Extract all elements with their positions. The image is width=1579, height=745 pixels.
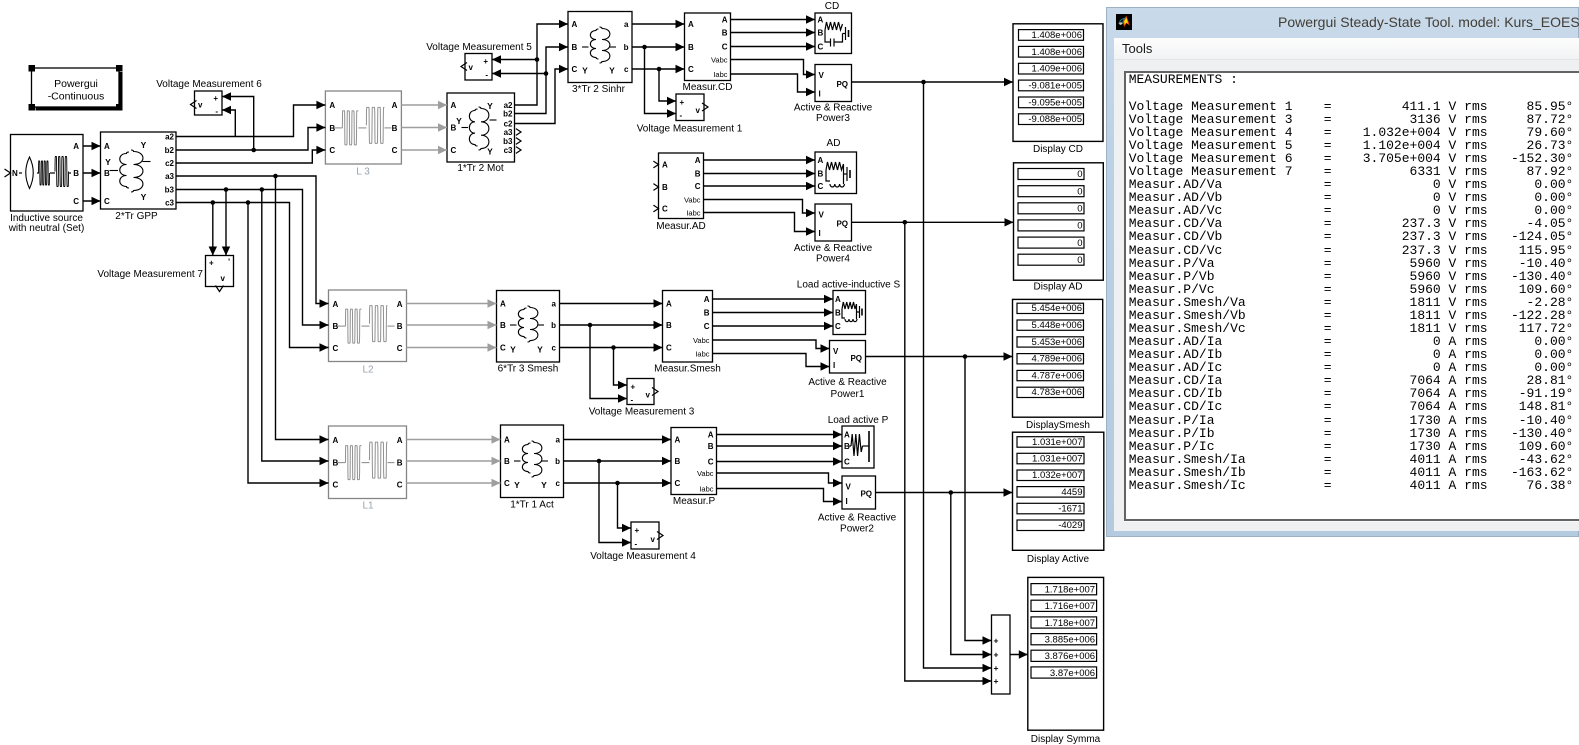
svg-text:Measur.P: Measur.P	[673, 496, 716, 507]
svg-text:Voltage Measurement 6: Voltage Measurement 6	[156, 79, 262, 90]
svg-text:A: A	[688, 20, 694, 29]
svg-text:Active & Reactive: Active & Reactive	[818, 513, 897, 524]
label Active & Reactive Power4	[794, 243, 873, 265]
svg-text:B: B	[392, 124, 398, 133]
svg-text:PQ: PQ	[836, 220, 848, 229]
svg-text:3.876e+006: 3.876e+006	[1045, 651, 1095, 662]
block Active & Reactive Power4	[815, 204, 852, 241]
wire Measur.CD B to CD B	[731, 28, 816, 36]
label 6*Tr 3 Smesh	[498, 364, 559, 375]
svg-text:B: B	[708, 442, 714, 451]
svg-text:B: B	[504, 457, 510, 466]
svg-text:C: C	[818, 182, 824, 191]
wire VM5 minus tap	[492, 73, 546, 75]
svg-text:C: C	[451, 146, 457, 155]
wire Power1 PQ branch to sum	[965, 357, 992, 645]
svg-text:Iabc: Iabc	[695, 349, 709, 358]
arrow into VM5 plus	[492, 55, 501, 63]
svg-text:B: B	[704, 308, 710, 317]
svg-text:Y: Y	[609, 66, 615, 76]
wire Power3 PQ to Display CD	[852, 78, 1014, 86]
svg-text:b: b	[551, 321, 556, 330]
svg-text:B: B	[397, 459, 403, 468]
svg-text:Y: Y	[487, 147, 493, 157]
svg-text:I: I	[819, 90, 821, 99]
svg-text:Vabc: Vabc	[693, 336, 710, 345]
wire Measur.P Iabc to Power2 I	[717, 489, 843, 506]
wire Measur.P C to P C	[717, 457, 843, 465]
svg-text:C: C	[397, 481, 403, 490]
wire GPP b3 to L2 B	[176, 187, 329, 329]
svg-text:Y: Y	[537, 345, 543, 355]
wire Measur.P Vabc to Power2 V	[717, 473, 843, 487]
svg-text:Powergui: Powergui	[54, 78, 98, 90]
block Voltage Measurement 7	[206, 256, 234, 292]
block Active & Reactive Power1	[830, 341, 866, 374]
svg-text:-Continuous: -Continuous	[48, 91, 105, 103]
wire Act c to Measur.P C	[564, 479, 672, 487]
svg-text:C: C	[333, 481, 339, 490]
svg-text:B: B	[695, 169, 701, 178]
svg-text:A: A	[572, 20, 578, 29]
wire Measur.P A to P A	[717, 430, 843, 438]
svg-text:Active & Reactive: Active & Reactive	[794, 103, 873, 114]
window client area	[1114, 38, 1579, 531]
svg-text:L1: L1	[362, 501, 374, 512]
measurement block Measur.P	[671, 428, 717, 495]
source block Inductive source with neutral (Set)	[5, 135, 84, 212]
wire Mot a2 to Sinhr A	[515, 20, 569, 105]
window icon	[1116, 14, 1132, 30]
svg-text:I: I	[846, 497, 848, 506]
wire L3 B to Mot B	[401, 123, 447, 131]
svg-text:a: a	[624, 20, 629, 29]
svg-text:v: v	[646, 391, 651, 400]
block Active & Reactive Power2	[842, 476, 876, 509]
svg-text:V: V	[846, 483, 852, 492]
svg-text:3.87e+006: 3.87e+006	[1050, 668, 1095, 679]
label L 3	[356, 167, 370, 178]
block Powergui -Continuous	[29, 65, 123, 111]
label Display Active	[1027, 554, 1090, 565]
svg-text:Y: Y	[510, 345, 516, 355]
svg-text:Display Active: Display Active	[1027, 554, 1090, 565]
wire L1 A to Act A	[407, 435, 501, 443]
svg-text:Power1: Power1	[831, 389, 865, 400]
wire GPP b3 branch to L1 B	[262, 190, 329, 466]
svg-text:+: +	[631, 383, 636, 392]
svg-text:-4029: -4029	[1058, 520, 1082, 531]
block L2	[329, 290, 407, 362]
svg-text:v: v	[696, 106, 701, 115]
svg-text:Measur.AD: Measur.AD	[656, 221, 705, 232]
svg-text:B: B	[818, 170, 824, 179]
wire Measur.AD Iabc to Power4 I	[704, 213, 816, 236]
svg-text:CD: CD	[825, 1, 839, 12]
Powergui Steady-State Tool window	[1106, 7, 1579, 537]
svg-text:1*Tr 2 Mot: 1*Tr 2 Mot	[457, 163, 504, 174]
svg-text:1.408e+006: 1.408e+006	[1032, 47, 1082, 58]
label Measur.P	[673, 496, 716, 507]
svg-text:1.032e+007: 1.032e+007	[1032, 470, 1082, 481]
svg-text:Voltage Measurement 1: Voltage Measurement 1	[637, 124, 743, 135]
load block AD	[815, 152, 857, 194]
svg-text:C: C	[688, 65, 694, 74]
wire Measur.AD B to AD B	[704, 169, 816, 177]
svg-text:-9.095e+005: -9.095e+005	[1028, 97, 1082, 108]
wire VM6 plus tap from b2	[222, 97, 254, 151]
wire Measur.AD C to AD C	[704, 182, 816, 190]
svg-text:3*Tr 2 Sinhr: 3*Tr 2 Sinhr	[572, 84, 626, 95]
svg-text:0: 0	[1077, 221, 1082, 232]
svg-text:B: B	[675, 457, 681, 466]
svg-text:b2: b2	[503, 109, 513, 118]
svg-text:5.453e+006: 5.453e+006	[1032, 337, 1082, 348]
svg-text:A: A	[451, 101, 457, 110]
display block DisplaySmesh	[1013, 299, 1103, 417]
label Active & Reactive Power2	[818, 513, 897, 535]
svg-text:C: C	[708, 457, 714, 466]
svg-text:v: v	[651, 535, 656, 544]
svg-text:0: 0	[1077, 186, 1082, 197]
svg-text:C: C	[666, 344, 672, 353]
wire GPP c2 to L3 C	[176, 146, 325, 163]
block L1	[329, 426, 407, 499]
wire Power1 PQ to DisplaySmesh	[866, 352, 1013, 360]
svg-text:b2: b2	[165, 146, 175, 155]
svg-text:C: C	[333, 344, 339, 353]
wire c tap to VM3 plus	[614, 348, 628, 390]
label Voltage Measurement 6	[156, 79, 262, 90]
load block CD	[815, 13, 852, 54]
wire Measur.Smesh B to S B	[713, 308, 834, 316]
svg-text:A: A	[844, 431, 850, 440]
wire GPP c3 branch to VM7	[209, 203, 217, 256]
transformer block 2*Tr GPP	[101, 132, 177, 209]
wire Power2 PQ branch to sum	[951, 493, 992, 659]
svg-text:A: A	[333, 300, 339, 309]
svg-text:-: -	[635, 540, 638, 549]
svg-text:C: C	[704, 322, 710, 331]
label DisplaySmesh	[1026, 420, 1090, 431]
svg-text:C: C	[500, 344, 506, 353]
svg-text:Measur.Smesh: Measur.Smesh	[654, 364, 721, 375]
wire Measur.CD C to CD C	[731, 42, 816, 50]
label Load active P	[828, 415, 889, 426]
svg-text:B: B	[104, 169, 110, 178]
label AD	[827, 138, 841, 149]
svg-text:+: +	[994, 676, 999, 686]
svg-text:B: B	[662, 183, 668, 192]
svg-text:1.409e+006: 1.409e+006	[1032, 64, 1082, 75]
measurements listbox	[1124, 71, 1579, 521]
label Active & Reactive Power3	[794, 103, 873, 125]
svg-text:a: a	[552, 300, 557, 309]
svg-text:DisplaySmesh: DisplaySmesh	[1026, 420, 1090, 431]
svg-text:I: I	[833, 361, 835, 370]
svg-text:A: A	[397, 436, 403, 445]
svg-text:Y: Y	[514, 480, 520, 490]
wire VM5 plus tap	[492, 59, 537, 61]
display block Display CD	[1013, 24, 1103, 142]
transformer block 1*Tr 1 Act	[501, 425, 564, 498]
label Voltage Measurement 7	[97, 269, 203, 280]
svg-text:a: a	[556, 436, 561, 445]
wire source A to GPP A	[83, 142, 101, 150]
svg-text:2*Tr GPP: 2*Tr GPP	[115, 211, 158, 222]
svg-text:1.408e+006: 1.408e+006	[1032, 30, 1082, 41]
svg-text:+: +	[209, 259, 214, 268]
label Measur.CD	[682, 82, 732, 93]
svg-text:-: -	[680, 111, 683, 120]
svg-text:Y: Y	[541, 480, 547, 490]
wire Sinhr b to Measur.CD B	[632, 43, 685, 51]
label L2	[362, 365, 374, 376]
svg-text:c: c	[556, 479, 561, 488]
svg-text:Voltage Measurement 3: Voltage Measurement 3	[589, 407, 695, 418]
svg-text:L 3: L 3	[356, 167, 370, 178]
svg-text:Y: Y	[456, 116, 462, 126]
label L1	[362, 501, 374, 512]
measurement block Measur.AD	[653, 153, 703, 219]
svg-text:C: C	[695, 182, 701, 191]
svg-text:Y: Y	[141, 140, 147, 150]
svg-text:PQ: PQ	[850, 354, 862, 363]
wire Measur.CD A to CD A	[731, 15, 816, 23]
svg-text:V: V	[833, 347, 839, 356]
svg-text:B: B	[666, 321, 672, 330]
block L 3	[325, 91, 401, 164]
wire GPP b2 to L3 B	[176, 123, 325, 152]
svg-text:Power4: Power4	[816, 254, 850, 265]
block Active & Reactive Power3	[815, 65, 852, 102]
wire Measur.Smesh Vabc to Power1 V	[713, 340, 830, 353]
label Measur.Smesh	[654, 364, 721, 375]
svg-text:B: B	[572, 43, 578, 52]
svg-text:C: C	[572, 65, 578, 74]
wire GPP c3 branch to L1 C	[248, 203, 329, 488]
svg-text:A: A	[104, 142, 110, 151]
svg-text:c3: c3	[165, 198, 174, 207]
block Voltage Measurement 1	[676, 94, 708, 121]
svg-text:6*Tr 3 Smesh: 6*Tr 3 Smesh	[498, 364, 559, 375]
wire Measur.Smesh Iabc to Power1 I	[713, 354, 830, 371]
svg-text:Vabc: Vabc	[684, 195, 701, 204]
svg-text:+: +	[994, 663, 999, 673]
block Voltage Measurement 3	[627, 379, 658, 405]
svg-text:1.031e+007: 1.031e+007	[1032, 454, 1082, 465]
svg-text:a3: a3	[165, 172, 174, 181]
block Voltage Measurement 4	[631, 522, 663, 549]
label Measur.AD	[656, 221, 705, 232]
svg-text:A: A	[835, 295, 841, 304]
svg-text:Load active-inductive S: Load active-inductive S	[797, 280, 901, 291]
svg-text:c: c	[552, 344, 557, 353]
svg-text:b: b	[555, 457, 560, 466]
svg-text:Iabc: Iabc	[713, 70, 727, 79]
arrow into VM6 plus	[222, 92, 231, 100]
svg-text:A: A	[695, 156, 701, 165]
svg-text:-9.081e+005: -9.081e+005	[1028, 81, 1082, 92]
wire b tap to VM4 minus	[599, 461, 631, 547]
svg-text:C: C	[104, 197, 110, 206]
label Display AD	[1034, 282, 1083, 293]
svg-text:B: B	[500, 321, 506, 330]
wire Power4 PQ branch to sum	[905, 222, 992, 685]
svg-text:Display AD: Display AD	[1034, 282, 1083, 293]
label Load active-inductive S	[797, 280, 901, 291]
svg-text:AD: AD	[827, 138, 841, 149]
svg-text:c: c	[624, 65, 629, 74]
wire VM6 minus tap from a2	[222, 110, 235, 137]
arrow into VM5 minus	[492, 69, 501, 77]
svg-text:B: B	[73, 169, 79, 178]
label Display CD	[1033, 144, 1083, 155]
label 1*Tr 2 Mot	[457, 163, 504, 174]
svg-text:+: +	[483, 57, 488, 66]
svg-text:B: B	[835, 309, 841, 318]
svg-text:b3: b3	[165, 185, 175, 194]
wire GPP a3 to L2 A	[176, 174, 329, 308]
svg-text:v: v	[198, 101, 203, 110]
label Display Symma	[1031, 734, 1101, 745]
svg-text:4459: 4459	[1061, 487, 1082, 498]
block Voltage Measurement 6	[191, 91, 223, 116]
svg-text:A: A	[818, 16, 824, 25]
svg-text:1.716e+007: 1.716e+007	[1045, 601, 1095, 612]
wire L1 C to Act C	[407, 479, 501, 487]
menu bar Tools	[1114, 38, 1579, 60]
svg-text:C: C	[397, 344, 403, 353]
svg-text:A: A	[333, 436, 339, 445]
label Voltage Measurement 5	[426, 42, 532, 53]
svg-text:C: C	[835, 322, 841, 331]
svg-text:1.718e+007: 1.718e+007	[1045, 618, 1095, 629]
svg-text:Voltage Measurement 5: Voltage Measurement 5	[426, 42, 532, 53]
svg-text:a2: a2	[165, 132, 174, 141]
wire Smesh b to Measur.Smesh B	[560, 321, 663, 329]
svg-text:Iabc: Iabc	[686, 208, 700, 217]
svg-text:Voltage Measurement 7: Voltage Measurement 7	[97, 269, 203, 280]
svg-text:PQ: PQ	[860, 490, 872, 499]
svg-text:+: +	[994, 650, 999, 660]
svg-text:Y: Y	[141, 192, 147, 202]
wire L1 B to Act B	[407, 457, 501, 465]
svg-text:Display CD: Display CD	[1033, 144, 1083, 155]
svg-text:Y: Y	[105, 157, 111, 167]
window title	[1278, 14, 1579, 30]
wire c tap to VM1 plus	[659, 69, 676, 105]
wire Measur.Smesh A to S A	[713, 295, 834, 303]
svg-text:B: B	[397, 322, 403, 331]
svg-text:Active & Reactive: Active & Reactive	[794, 243, 873, 254]
label Voltage Measurement 1	[637, 124, 743, 135]
svg-text:Load active P: Load active P	[828, 415, 889, 426]
svg-text:Display Symma: Display Symma	[1031, 734, 1101, 745]
wire Measur.CD Vabc to Power3 V	[731, 60, 816, 79]
svg-text:N: N	[12, 169, 18, 178]
svg-text:Measur.CD: Measur.CD	[682, 82, 732, 93]
wire sum to Display Symma	[1010, 650, 1028, 658]
svg-text:C: C	[504, 479, 510, 488]
svg-text:Vabc: Vabc	[697, 469, 714, 478]
svg-text:4.783e+006: 4.783e+006	[1032, 387, 1082, 398]
svg-text:Y: Y	[582, 66, 588, 76]
svg-text:1.718e+007: 1.718e+007	[1045, 585, 1095, 596]
svg-text:+: +	[635, 526, 640, 535]
wire L3 C to Mot C	[401, 146, 447, 154]
svg-text:0: 0	[1077, 238, 1082, 249]
svg-text:-: -	[485, 71, 488, 80]
svg-text:b3: b3	[503, 137, 513, 146]
wire L2 B to Smesh B	[407, 321, 497, 329]
svg-text:-: -	[215, 107, 218, 116]
svg-text:-9.088e+005: -9.088e+005	[1028, 114, 1082, 125]
wire GPP c3 to L2 C	[176, 200, 329, 352]
svg-text:C: C	[329, 146, 335, 155]
svg-text:1.031e+007: 1.031e+007	[1032, 437, 1082, 448]
svg-text:C: C	[662, 205, 668, 214]
svg-text:V: V	[819, 71, 825, 80]
label 3*Tr 2 Sinhr	[572, 84, 626, 95]
wire GPP b3 branch to VM7	[222, 190, 230, 256]
display block Display AD	[1014, 163, 1104, 280]
sum block	[992, 615, 1011, 694]
svg-text:A: A	[675, 436, 681, 445]
svg-text:4.789e+006: 4.789e+006	[1032, 354, 1082, 365]
wire Measur.AD A to AD A	[704, 156, 816, 164]
svg-text:C: C	[844, 458, 850, 467]
display block Display Symma	[1028, 577, 1104, 730]
wire b tap to VM1 minus	[645, 47, 677, 118]
display block Display Active	[1013, 432, 1104, 550]
svg-text:I: I	[819, 229, 821, 238]
svg-text:A: A	[73, 142, 79, 151]
wire Mot c2 to Sinhr C	[515, 65, 569, 124]
wire GPP a3 branch to L1 A	[276, 176, 329, 444]
svg-text:B: B	[818, 29, 824, 38]
wire Measur.AD Vabc to Power4 V	[704, 200, 816, 218]
svg-text:1*Tr 1 Act: 1*Tr 1 Act	[510, 500, 554, 511]
svg-text:Active & Reactive: Active & Reactive	[808, 377, 887, 388]
svg-text:5.454e+006: 5.454e+006	[1032, 303, 1082, 314]
svg-text:c3: c3	[504, 146, 513, 155]
svg-text:A: A	[662, 161, 668, 170]
wire L3 A to Mot A	[401, 101, 447, 109]
svg-text:A: A	[666, 300, 672, 309]
svg-text:C: C	[675, 479, 681, 488]
svg-text:Iabc: Iabc	[699, 484, 713, 493]
wire Mot b2 to Sinhr B	[515, 43, 569, 114]
svg-text:Power3: Power3	[816, 113, 850, 124]
wire Act a to Measur.P A	[564, 435, 672, 443]
svg-text:0: 0	[1077, 169, 1082, 180]
svg-text:A: A	[500, 300, 506, 309]
svg-text:+: +	[994, 636, 999, 646]
svg-text:PQ: PQ	[836, 80, 848, 89]
svg-text:V: V	[819, 211, 825, 220]
measurement block Measur.Smesh	[663, 291, 713, 363]
transformer block 6*Tr 3 Smesh	[497, 291, 560, 363]
svg-text:-1671: -1671	[1058, 504, 1082, 515]
arrow into VM6 minus	[222, 106, 231, 114]
wire Measur.Smesh C to S C	[713, 322, 834, 330]
svg-text:0: 0	[1077, 204, 1082, 215]
svg-text:b: b	[624, 43, 629, 52]
svg-text:A: A	[329, 101, 335, 110]
svg-text:+: +	[680, 98, 685, 107]
wire Power4 PQ to Display AD	[852, 218, 1014, 226]
